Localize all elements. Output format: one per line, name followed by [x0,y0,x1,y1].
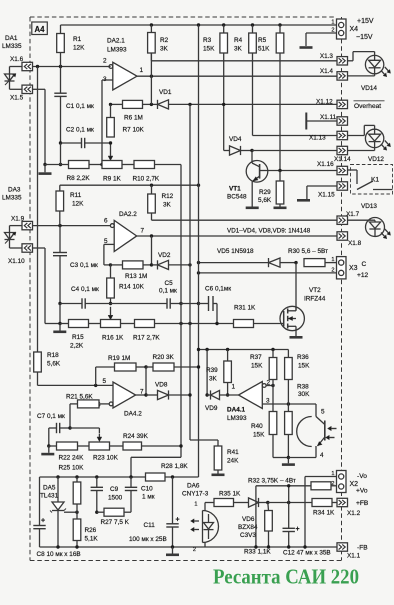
connector X1.12 [316,99,348,109]
diode VD2 [152,252,191,270]
svg-text:C3 0,1 мк: C3 0,1 мк [70,262,98,269]
svg-text:+FB: +FB [356,500,369,507]
connector X1.6 [10,56,33,71]
junction row-C6 [215,322,218,325]
svg-text:X1.13: X1.13 [309,135,326,142]
svg-text:R14 10K: R14 10K [119,284,145,291]
svg-text:R6 1M: R6 1M [124,115,143,122]
junction C3col-R15row [58,322,61,325]
svg-text:TL431: TL431 [40,493,59,500]
junction R14-R13 [109,263,112,266]
wire DA4.1 pin3 row [262,404,316,413]
svg-text:VD1–VD4, VD8,VD9: 1N4148: VD1–VD4, VD8,VD9: 1N4148 [227,227,311,234]
connector X1.2 [337,498,369,517]
junction rail-R4 [251,23,254,26]
resistor R37 15K [250,350,277,386]
junction rail-TL431a [56,545,59,548]
junction row-bus198 [197,348,200,351]
svg-text:100 мк х 25В: 100 мк х 25В [129,536,167,543]
svg-text:DA6: DA6 [187,483,200,490]
svg-text:Overheat: Overheat [354,103,381,110]
svg-text:X1.4: X1.4 [320,68,334,75]
wire DA2.1 output to X1.4 row [137,75,337,77]
svg-text:R17 2,7K: R17 2,7K [133,335,160,342]
junction VD6-R33 [266,501,269,504]
ground VT2 [290,336,303,339]
svg-text:R39: R39 [206,367,218,374]
resistor R30 5,6-5W [288,248,337,267]
wire X4 pin2 to ground [306,33,337,46]
junction rail-R25 [75,475,78,478]
svg-text:R36: R36 [297,354,309,361]
svg-text:R30 5,6 – 5Вт: R30 5,6 – 5Вт [288,248,328,255]
junction R33-rail [267,545,270,548]
svg-text:VD6: VD6 [242,516,255,523]
diode VD5 1N5918 [199,248,297,267]
junction R25-R26-ref [75,511,78,514]
svg-text:R38: R38 [297,384,309,391]
connector X1.9 [11,216,33,230]
op-amp DA4.1 LM393 [227,380,271,423]
temp sensor DA3 LM335 [2,187,22,244]
junction rail-R26 [75,545,78,548]
svg-text:5,6K: 5,6K [258,197,272,204]
connector X1.3 [320,53,348,65]
svg-text:R2: R2 [160,37,169,44]
svg-text:15K: 15K [253,432,265,439]
LED VD12 [348,125,391,163]
svg-text:X1.2: X1.2 [347,510,361,517]
svg-text:5: 5 [103,378,107,385]
svg-text:2: 2 [103,58,107,65]
wiper arrow R23 [98,434,100,439]
svg-text:VD12: VD12 [368,156,384,163]
wire R4 column to X1.13 row [253,53,338,136]
LED VD14 [348,52,391,92]
junction C1col-R8row [59,163,62,166]
svg-text:LM335: LM335 [2,195,22,202]
junction rail-bus198 [197,23,200,26]
wire DA4.2 output row [136,394,146,396]
svg-text:C5: C5 [165,280,174,287]
svg-text:R18: R18 [47,352,59,359]
junction R8-R9-pin3 [100,163,103,166]
svg-text:5,6K: 5,6K [47,361,61,368]
svg-text:R8 2,2K: R8 2,2K [67,175,91,182]
junction VD5-R30-VT2 [294,261,297,264]
junction rail-C11 [171,475,174,478]
wiper wire R23 [70,428,99,433]
svg-text:BC548: BC548 [227,194,247,201]
svg-text:-FB: -FB [357,545,368,552]
junction R19-R20 [144,365,147,368]
svg-text:X1.1: X1.1 [347,553,361,560]
svg-text:R21 5,6K: R21 5,6K [66,394,93,401]
resistor R5 51K [258,25,284,53]
svg-text:+: + [176,517,180,524]
svg-text:VD13: VD13 [361,203,377,210]
svg-text:K1: K1 [371,177,379,184]
ground R8 row [39,165,52,174]
wire DA2.1 pin3 [102,80,113,165]
svg-text:R9 1K: R9 1K [103,176,121,183]
junction col207-VD9row [205,393,208,396]
resistor R31 1K [234,305,284,328]
svg-text:-Vo: -Vo [357,473,367,480]
wire X1.15 to ground [307,186,337,199]
svg-text:VD4: VD4 [229,136,242,143]
capacitor C3 0,1mk [53,226,98,304]
resistor R11 12K [56,185,84,225]
resistor R16 1K (pot) [89,320,135,342]
svg-text:R40: R40 [251,423,263,430]
svg-text:1 мк: 1 мк [142,494,155,501]
svg-text:X1.15: X1.15 [318,192,335,199]
svg-text:R12: R12 [162,193,174,200]
svg-text:VD5 1N5918: VD5 1N5918 [217,248,254,255]
svg-text:2,2K: 2,2K [70,343,84,350]
junction row-R39 [226,348,229,351]
wire bus181 from R10 [131,165,181,478]
svg-text:C3V3: C3V3 [240,532,256,539]
connector X1.11 [320,114,348,125]
wire VD1 row [111,103,338,105]
capacitor C8 10mk 16V electrolytic [33,477,80,558]
svg-text:DA2.1: DA2.1 [107,38,125,45]
svg-text:R4: R4 [234,37,243,44]
diode VD4 [224,136,252,155]
junction VD4-VT1 base [250,149,253,152]
svg-text:X1.14: X1.14 [334,156,351,163]
resistor R33 1,1K [244,503,272,556]
ground X4 [300,46,313,49]
svg-text:DA1: DA1 [5,35,18,42]
svg-text:R29: R29 [259,189,271,196]
svg-text:X1.10: X1.10 [8,258,25,265]
junction R20-bus198 [197,365,200,368]
wiper arrow R16 [110,307,112,317]
capacitor C10 1mk [125,477,155,512]
junction out-jcol [144,393,147,396]
wire X1.9 row [10,226,111,230]
resistor R22 24K [49,442,89,472]
svg-text:X1.7: X1.7 [346,211,360,218]
resistor R13 1M [111,261,152,280]
svg-text:R19 1M: R19 1M [108,355,130,362]
junction R24-bus181 [179,444,182,447]
transistor VT2 IRFZ44 (MOSFET) [280,263,326,336]
svg-text:5: 5 [321,409,325,416]
wire bottom rail 547 [40,546,338,548]
resistor R23 10K (pot) [89,442,123,462]
svg-text:X3: X3 [349,265,358,272]
junction row-bus190 [188,322,191,325]
svg-text:X4: X4 [350,26,359,33]
wire DA2.2 output to X1.8 row [137,235,337,237]
ground R15 row [53,324,66,332]
junction VD1-bus190 [188,103,191,106]
svg-text:X1.8: X1.8 [348,240,362,247]
capacitor C4 0,1mk [60,286,111,309]
svg-text:12K: 12K [73,45,85,52]
svg-text:Ресанта САИ 220: Ресанта САИ 220 [213,565,359,589]
svg-text:VD14: VD14 [361,85,377,92]
junction row185-bus198 [197,184,200,187]
resistor R14 10K [107,265,145,304]
ground X1.15 [297,199,310,202]
svg-text:VT2: VT2 [309,287,321,294]
svg-text:X1.6: X1.6 [10,56,24,63]
svg-text:3K: 3K [234,46,243,53]
junction R32-C12 [287,484,290,487]
svg-text:DA4.1: DA4.1 [227,407,246,414]
capacitor C12 47mk 35V electrolytic [283,503,331,557]
capacitor C7 0,1mk [37,413,70,446]
junction rail-R5 [278,23,281,26]
capacitor C5 0,1mk [111,280,182,309]
connector X1.13 [309,131,348,141]
svg-text:1: 1 [232,384,236,391]
svg-text:C6 0,1мк: C6 0,1мк [205,286,231,293]
wire R37 top row [199,349,289,351]
svg-text:VD1: VD1 [159,89,172,96]
resistor R40 15K [251,386,288,458]
svg-text:R24 39K: R24 39K [123,433,149,440]
junction R14-Crow [109,302,112,305]
junction R13-VD2 [150,263,153,266]
junction pin3-R36R38 [287,402,290,405]
svg-text:1: 1 [194,502,197,508]
svg-text:C4 0,1 мк: C4 0,1 мк [71,286,99,293]
connector X1.16 [317,161,348,175]
svg-text:CNY17-3: CNY17-3 [182,491,209,498]
svg-text:5,1K: 5,1K [85,536,99,543]
svg-text:R27 7,5 K: R27 7,5 K [101,519,130,526]
resistor R20 3K [146,354,199,371]
junction rail-C9 [95,475,98,478]
connector X2 [331,471,368,495]
wire VD6 row to R34 [268,502,312,504]
diode VD9 [205,390,239,412]
resistor R6 1M [123,100,143,121]
junction rail-R3 [222,23,225,26]
wire X1.4 row to VD14 [348,75,375,77]
resistor R26 5,1K [73,512,98,547]
wire R19R20 junction down [145,367,147,395]
junction X2pin1-rail [303,545,306,548]
resistor R1 12K [57,25,85,67]
resistor R15 2,2K (pot) [60,320,89,350]
junction row-col207 [205,348,208,351]
LED VD13 [361,203,391,239]
svg-text:+: + [296,526,300,533]
svg-text:DA2.2: DA2.2 [119,211,137,218]
wire DA2.2 pin5 [104,244,114,265]
svg-text:DA4.2: DA4.2 [124,411,142,418]
svg-text:VD2: VD2 [158,252,171,259]
svg-text:X1.9: X1.9 [11,216,25,223]
zener VD6 BZX84 C3V3 [238,498,268,539]
svg-text:VD8: VD8 [155,382,168,389]
junction X1.6-R1 [59,65,62,68]
svg-text:X1.3: X1.3 [320,53,334,60]
svg-text:X1.5: X1.5 [10,95,24,102]
wire bus198 (+15V feed) [198,25,200,477]
capacitor C9 1500 [91,477,123,512]
junction VD1-R3col [222,103,225,106]
svg-text:6: 6 [104,218,108,225]
svg-text:15K: 15K [203,46,215,53]
phototransistor DA6 pin5/pin4 [288,409,336,460]
resistor R12 3K [148,185,174,220]
svg-text:X1.12: X1.12 [316,99,333,106]
connector X4 [331,18,373,41]
resistor R27 7,5K [97,508,131,526]
junction output-R2 [150,75,153,78]
wire top rail 477 [40,476,199,478]
resistor R9 1K (pot) [102,161,134,183]
ground C11 [166,547,179,555]
svg-text:24K: 24K [227,458,239,465]
svg-text:C10: C10 [141,486,153,493]
wire X1.6 row [10,67,111,72]
svg-text:X1.16: X1.16 [317,161,334,168]
svg-text:IRFZ44: IRFZ44 [304,296,326,303]
capacitor C2 0,1mk [61,127,111,149]
wire R28 to bus198 [198,476,200,478]
svg-text:R16 1K: R16 1K [102,335,124,342]
svg-text:DA3: DA3 [8,187,21,194]
svg-text:R35 1K: R35 1K [219,491,241,498]
resistor R2 3K [148,25,169,76]
wire R5 column [279,53,281,171]
resistor R24 39K [123,433,181,450]
svg-text:R23 10K: R23 10K [93,455,119,462]
svg-text:R3: R3 [203,37,212,44]
svg-text:3K: 3K [163,202,172,209]
wire VT1 emitter [251,181,253,207]
ground R22 [41,446,54,454]
svg-text:R1: R1 [73,36,82,43]
svg-text:7: 7 [141,228,145,235]
wire X1.5 row [10,85,46,165]
junction pin2-R37R40 [271,384,274,387]
wire VT1 collector row to X1.16 [268,170,337,172]
svg-text:LM335: LM335 [2,43,22,50]
svg-text:C12 47 мк х 35В: C12 47 мк х 35В [283,550,331,557]
junction rail-C10 [129,475,132,478]
junction C9-R27 [95,511,98,514]
svg-text:0,1 мк: 0,1 мк [159,288,177,295]
ground R29 [274,207,287,210]
svg-text:−15V: −15V [356,34,373,41]
resistor R39 3K [206,350,231,396]
svg-text:1: 1 [331,20,334,26]
svg-text:C8 10 мк x 16В: C8 10 мк x 16В [37,551,81,558]
svg-text:12K: 12K [72,201,84,208]
connector X1.5 [10,85,33,101]
svg-text:30K: 30K [298,391,310,398]
junction Crow-bus181 [179,302,182,305]
junction row185-R12 [150,184,153,187]
wiper arrow R9 [110,145,112,158]
connector X3 [331,257,368,279]
ground DA4.1 block [282,458,295,465]
board outline dashed frame A4 [30,17,342,561]
svg-text:R34 1K: R34 1K [313,510,335,517]
resistor R29 5,6K [258,171,284,207]
junction R39-VD9row [226,393,229,396]
wire R3 column [223,53,225,151]
junction VD1-R2col [150,103,153,106]
resistor R34 1K [312,499,337,517]
svg-text:R25 10K: R25 10K [59,465,85,472]
svg-text:C7 0,1 мк: C7 0,1 мк [37,413,65,420]
svg-text:R37: R37 [250,354,262,361]
junction rail-R2 [150,23,153,26]
resistor R19 1M [96,355,146,385]
transistor VT1 BC548 [227,151,268,201]
svg-text:+Vo: +Vo [356,488,368,495]
junction C2-R7 [109,141,112,144]
svg-text:R32 3,75K – 4Вт: R32 3,75K – 4Вт [248,478,296,485]
svg-text:3K: 3K [209,376,218,383]
svg-text:A4: A4 [35,25,46,34]
connector X1.10 [8,244,33,265]
op-amp DA2.1 LM393 [103,38,144,91]
connector X1.15 [318,182,348,199]
optocoupler DA6 CNY17-3 LED [182,483,219,554]
resistor R36 15K [285,350,311,405]
junction R17-bus181 [179,322,182,325]
resistor R41 24K [214,446,239,474]
wire X2 pin1 down to rail [305,477,337,548]
wire bus190 (OR net) [190,104,218,446]
diode VD8 [146,382,190,400]
svg-text:R41: R41 [227,449,239,456]
svg-text:2: 2 [331,481,334,487]
junction out-col [150,234,153,237]
junction rail-TL431 [56,475,59,478]
junction X1.6-R18 [36,65,39,68]
junction Crow-bus198 [197,302,200,305]
wire VD4 row to X1.14 [252,150,337,152]
shunt regulator DA5 TL431 [40,477,77,547]
resistor R10 2,7K [133,161,182,183]
wire R11/R12 top row [60,184,199,186]
svg-text:R10 2,7K: R10 2,7K [133,176,160,183]
junction C7-R21 [68,426,71,429]
wire X3 pin2 row [199,272,337,274]
relay K1 [348,165,393,195]
svg-text:R5: R5 [258,37,267,44]
svg-text:R28 1,8K: R28 1,8K [161,463,188,470]
junction rail-C11b [171,545,174,548]
resistor R7 10K [107,104,145,137]
svg-text:1: 1 [331,257,334,263]
junction VT1-R5col [278,169,281,172]
connector X1.7 [337,211,360,224]
svg-text:DA5: DA5 [43,485,56,492]
resistor R17 2,7K [133,320,234,342]
resistor R25 10K [73,477,81,512]
svg-text:+15V: +15V [357,18,374,25]
op-amp DA4.2 LM393 [97,378,144,418]
junction C1-C2 [59,141,62,144]
svg-text:4: 4 [320,452,324,459]
svg-text:15K: 15K [251,363,263,370]
svg-text:R20 3K: R20 3K [153,354,175,361]
